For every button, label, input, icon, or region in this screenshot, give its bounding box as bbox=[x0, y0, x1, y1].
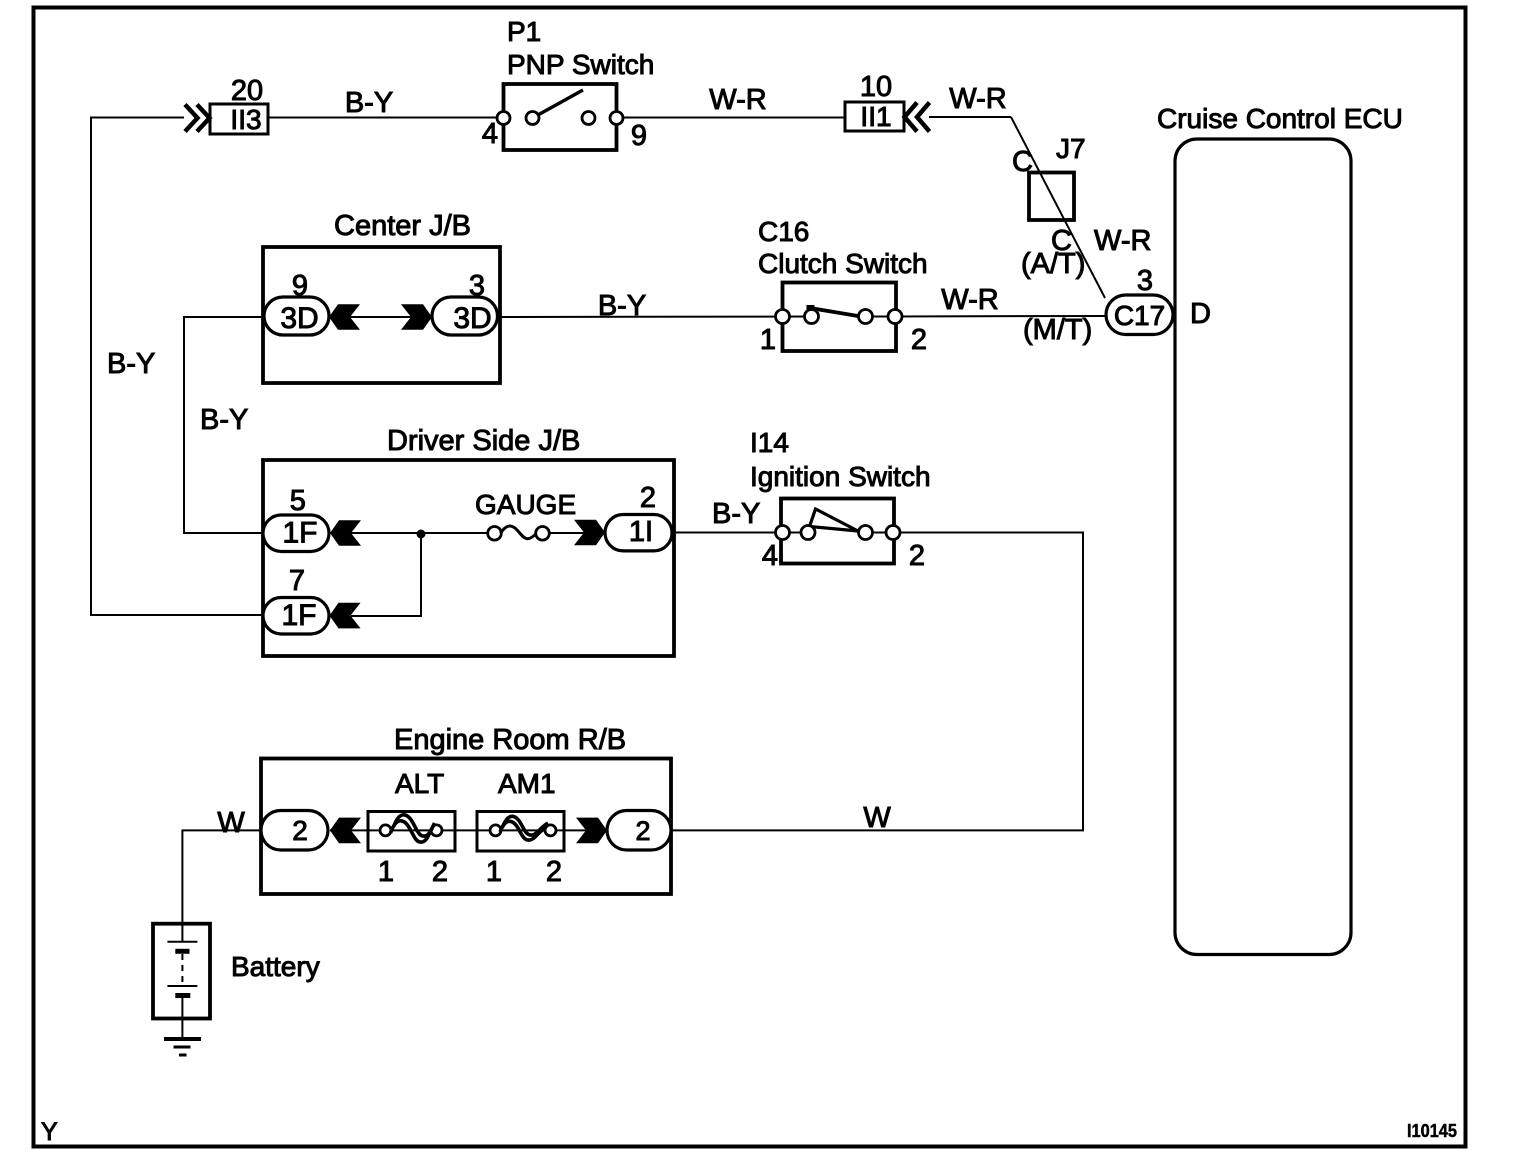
svg-text:Clutch Switch: Clutch Switch bbox=[758, 248, 928, 279]
svg-text:1: 1 bbox=[486, 856, 502, 888]
svg-text:4: 4 bbox=[762, 540, 778, 572]
svg-text:1: 1 bbox=[760, 324, 776, 356]
svg-text:3D: 3D bbox=[453, 302, 491, 335]
svg-text:I14: I14 bbox=[750, 427, 789, 458]
svg-text:2: 2 bbox=[909, 540, 925, 572]
svg-text:2: 2 bbox=[292, 815, 308, 846]
svg-text:3: 3 bbox=[1137, 265, 1153, 297]
svg-text:C17: C17 bbox=[1114, 300, 1165, 331]
svg-text:2: 2 bbox=[640, 482, 656, 514]
svg-text:B-Y: B-Y bbox=[345, 87, 393, 119]
svg-text:10: 10 bbox=[860, 71, 892, 103]
svg-text:B-Y: B-Y bbox=[712, 498, 760, 530]
svg-text:2: 2 bbox=[432, 856, 448, 888]
svg-text:C: C bbox=[1012, 146, 1033, 178]
svg-text:B-Y: B-Y bbox=[107, 348, 155, 380]
svg-text:2: 2 bbox=[546, 856, 562, 888]
svg-text:9: 9 bbox=[631, 120, 647, 152]
svg-text:W-R: W-R bbox=[941, 284, 998, 316]
svg-text:2: 2 bbox=[911, 324, 927, 356]
svg-text:4: 4 bbox=[482, 118, 498, 150]
svg-text:W-R: W-R bbox=[1094, 225, 1151, 257]
svg-text:1I: 1I bbox=[629, 516, 653, 548]
svg-text:3D: 3D bbox=[280, 302, 318, 335]
svg-text:Ignition Switch: Ignition Switch bbox=[750, 461, 931, 492]
svg-text:D: D bbox=[1190, 298, 1211, 330]
svg-text:Engine Room R/B: Engine Room R/B bbox=[394, 724, 626, 756]
svg-text:II1: II1 bbox=[860, 101, 891, 132]
svg-text:9: 9 bbox=[292, 270, 308, 302]
svg-text:1F: 1F bbox=[281, 599, 316, 632]
svg-text:I10145: I10145 bbox=[1407, 1121, 1457, 1141]
svg-text:W-R: W-R bbox=[709, 84, 766, 116]
svg-text:GAUGE: GAUGE bbox=[475, 489, 576, 520]
svg-text:W-R: W-R bbox=[949, 83, 1006, 115]
svg-text:(A/T): (A/T) bbox=[1021, 248, 1085, 280]
svg-text:PNP Switch: PNP Switch bbox=[507, 49, 654, 80]
svg-text:1F: 1F bbox=[282, 517, 317, 550]
svg-text:Driver Side J/B: Driver Side J/B bbox=[387, 425, 580, 457]
svg-text:Battery: Battery bbox=[231, 951, 320, 982]
svg-text:20: 20 bbox=[231, 75, 263, 107]
svg-text:2: 2 bbox=[635, 816, 650, 846]
svg-text:1: 1 bbox=[378, 856, 394, 888]
svg-text:Y: Y bbox=[41, 1118, 58, 1146]
svg-text:(M/T): (M/T) bbox=[1023, 314, 1092, 346]
svg-text:7: 7 bbox=[289, 565, 305, 597]
svg-text:Center J/B: Center J/B bbox=[334, 210, 471, 242]
svg-text:5: 5 bbox=[290, 485, 306, 517]
svg-text:W: W bbox=[217, 807, 245, 839]
svg-text:3: 3 bbox=[469, 270, 485, 302]
svg-text:II3: II3 bbox=[230, 104, 261, 135]
svg-text:Cruise Control ECU: Cruise Control ECU bbox=[1157, 103, 1403, 134]
svg-text:ALT: ALT bbox=[395, 768, 444, 799]
svg-text:J7: J7 bbox=[1056, 133, 1086, 164]
svg-text:B-Y: B-Y bbox=[598, 290, 646, 322]
svg-text:C16: C16 bbox=[758, 216, 809, 247]
svg-text:AM1: AM1 bbox=[498, 768, 556, 799]
svg-text:P1: P1 bbox=[507, 16, 541, 47]
svg-text:W: W bbox=[863, 802, 891, 834]
svg-text:B-Y: B-Y bbox=[200, 404, 248, 436]
